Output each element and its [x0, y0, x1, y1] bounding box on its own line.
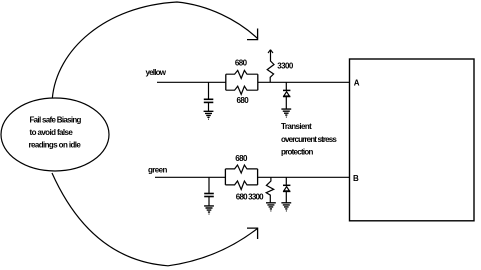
- annotation arrow: top curved arrow to yellow channel: [52, 2, 258, 99]
- diode D2 (green line to ground): [283, 177, 290, 202]
- wire green net (left segment): [155, 176, 226, 178]
- resistor R6 3300 (green line to ground): [266, 177, 274, 202]
- capacitor C2 (green line to ground): [204, 177, 214, 206]
- svg-text:yellow: yellow: [146, 68, 167, 77]
- ground (below C2): [204, 206, 214, 214]
- IC U1: receiver block: [350, 59, 475, 221]
- wire green net (right segment to pin B): [258, 176, 350, 178]
- note: transient protection text: [281, 122, 337, 157]
- svg-text:3300: 3300: [277, 61, 294, 70]
- resistor pair R1 R2: two 680 in parallel (yellow line): [226, 70, 258, 94]
- svg-text:680 3300: 680 3300: [236, 193, 264, 202]
- ground (below D1): [281, 109, 291, 117]
- annotation ellipse: fail-safe biasing note: [1, 98, 109, 171]
- svg-text:Transient: Transient: [281, 122, 312, 131]
- diode D1 (yellow line to ground): [283, 82, 290, 109]
- annotation arrow: bottom curved arrow to green channel: [52, 173, 258, 266]
- svg-text:B: B: [353, 174, 359, 183]
- svg-text:green: green: [148, 165, 167, 174]
- wire yellow net (right segment to pin A): [258, 81, 350, 83]
- svg-text:protection: protection: [281, 148, 313, 157]
- svg-text:680: 680: [235, 58, 248, 67]
- ground (below D2): [281, 203, 291, 211]
- svg-text:A: A: [354, 78, 360, 87]
- resistor pair R4 R5: two 680 in parallel (green line): [225, 165, 257, 190]
- ground (below R6): [266, 203, 276, 211]
- svg-text:680: 680: [235, 154, 248, 163]
- wire yellow net (left segment): [157, 81, 226, 83]
- capacitor C1 (yellow line to ground): [204, 82, 214, 111]
- resistor R3 3300 pull-up (yellow line): [267, 50, 274, 83]
- svg-text:overcurrent stress: overcurrent stress: [281, 135, 337, 144]
- svg-text:Fail safe Biasing: Fail safe Biasing: [30, 116, 82, 125]
- ground (below C1): [204, 111, 214, 119]
- svg-text:to avoid false: to avoid false: [30, 128, 74, 137]
- svg-text:readings on idle: readings on idle: [29, 141, 82, 150]
- svg-text:680: 680: [237, 96, 250, 105]
